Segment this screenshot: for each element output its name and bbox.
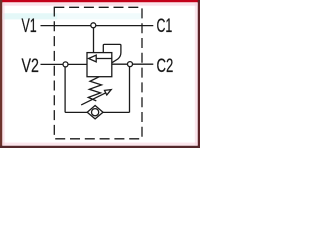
node junction on C2 line <box>128 62 133 67</box>
jpeg tint band pink top <box>2 3 197 6</box>
frame top border <box>0 0 200 2</box>
frame left border <box>0 0 2 148</box>
wire bottom bypass rail left <box>65 111 87 113</box>
wire V2 to valve inlet <box>41 63 88 65</box>
node junction on V1-C1 line <box>91 23 96 28</box>
relief valve flow arrowhead <box>89 55 97 62</box>
svg-text:C2: C2 <box>157 55 174 77</box>
jpeg tint band cyan top-mid <box>57 13 142 19</box>
jpeg tint band pink bottom <box>2 143 197 146</box>
frame right border <box>198 0 200 148</box>
valve enclosure dashed boundary <box>54 7 142 139</box>
check valve diamond <box>87 106 103 119</box>
wire pilot line from node to valve top <box>93 26 95 53</box>
spring <box>88 77 101 101</box>
check valve ball <box>92 109 99 116</box>
svg-text:V1: V1 <box>22 15 37 37</box>
wire bottom bypass rail right <box>103 111 130 113</box>
pilot loop over valve <box>103 44 121 62</box>
wire valve outlet to C2 <box>112 63 154 65</box>
spring adjustment arrow shaft <box>81 93 106 105</box>
wire left riser <box>64 64 66 112</box>
svg-text:V2: V2 <box>22 55 39 77</box>
frame bottom border <box>0 146 200 148</box>
spring adjustment arrowhead <box>105 90 112 95</box>
wire right riser <box>129 64 131 112</box>
relief valve body square <box>87 53 112 77</box>
relief valve flow arrow line <box>96 58 112 60</box>
svg-text:C1: C1 <box>157 15 173 37</box>
jpeg tint band cyan top-left <box>2 13 57 19</box>
node junction on V2 line <box>63 62 68 67</box>
jpeg tint column pink left <box>2 3 4 145</box>
jpeg tint column pink right <box>195 3 198 145</box>
wire V1-C1 line <box>41 25 154 27</box>
